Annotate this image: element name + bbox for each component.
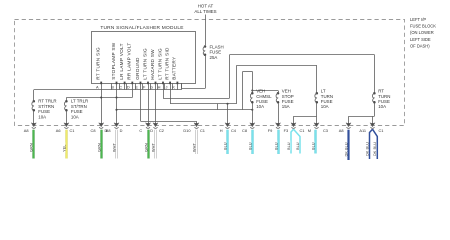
svg-text:YEL: YEL bbox=[61, 144, 66, 152]
svg-text:10A: 10A bbox=[321, 104, 329, 109]
svg-text:C1: C1 bbox=[200, 128, 205, 133]
svg-text:C8: C8 bbox=[242, 128, 247, 133]
svg-text:A11: A11 bbox=[359, 128, 366, 133]
svg-text:C1: C1 bbox=[70, 128, 75, 133]
svg-text:C1: C1 bbox=[300, 128, 305, 133]
svg-text:LEFT SIDE: LEFT SIDE bbox=[410, 37, 431, 42]
svg-text:GRN: GRN bbox=[28, 143, 33, 152]
svg-text:10A: 10A bbox=[256, 104, 264, 109]
svg-text:A8: A8 bbox=[339, 128, 344, 133]
svg-text:GRN: GRN bbox=[96, 143, 101, 152]
svg-text:TURN SIGNAL/FLASHER MODULE: TURN SIGNAL/FLASHER MODULE bbox=[100, 25, 183, 31]
svg-text:C8: C8 bbox=[91, 128, 96, 133]
svg-text:HOT AT: HOT AT bbox=[198, 4, 214, 9]
svg-text:A8: A8 bbox=[24, 128, 29, 133]
svg-text:10A: 10A bbox=[38, 115, 46, 120]
svg-text:(ON LOWER: (ON LOWER bbox=[410, 30, 434, 35]
svg-text:RT TURN SIG: RT TURN SIG bbox=[96, 47, 101, 80]
svg-text:FUSE BLOCK: FUSE BLOCK bbox=[410, 24, 436, 29]
svg-text:15A: 15A bbox=[282, 104, 290, 109]
svg-text:GRN: GRN bbox=[143, 143, 148, 152]
svg-text:DK BLU: DK BLU bbox=[343, 142, 348, 156]
svg-text:HAZARD SW: HAZARD SW bbox=[150, 49, 155, 80]
svg-text:A6: A6 bbox=[56, 128, 61, 133]
svg-text:D: D bbox=[120, 128, 123, 133]
svg-text:J: J bbox=[166, 85, 168, 90]
svg-text:RT TURN SID: RT TURN SID bbox=[164, 47, 169, 80]
svg-text:GROUND: GROUND bbox=[135, 57, 140, 80]
svg-text:BATTERY: BATTERY bbox=[172, 56, 177, 80]
svg-text:D: D bbox=[127, 85, 130, 90]
svg-text:BLU: BLU bbox=[295, 142, 300, 150]
svg-text:C3: C3 bbox=[323, 128, 328, 133]
svg-text:WHT: WHT bbox=[111, 143, 116, 152]
svg-text:A: A bbox=[96, 85, 99, 90]
svg-text:LT TURN SIG: LT TURN SIG bbox=[142, 48, 147, 80]
svg-text:DK BLU: DK BLU bbox=[364, 142, 369, 156]
svg-text:FLASH: FLASH bbox=[210, 44, 224, 49]
svg-text:BLU: BLU bbox=[310, 142, 315, 150]
svg-text:BLU: BLU bbox=[247, 142, 252, 150]
svg-text:FUSE: FUSE bbox=[38, 109, 50, 114]
svg-text:BLU: BLU bbox=[286, 142, 291, 150]
svg-text:WHT: WHT bbox=[191, 143, 196, 152]
svg-text:F3: F3 bbox=[284, 128, 289, 133]
svg-text:F9: F9 bbox=[268, 128, 273, 133]
svg-text:10A: 10A bbox=[71, 115, 79, 120]
svg-text:C4: C4 bbox=[231, 128, 237, 133]
svg-text:DK BLU: DK BLU bbox=[372, 142, 377, 156]
svg-text:LT TURN SIG: LT TURN SIG bbox=[157, 48, 162, 80]
svg-text:FUSE: FUSE bbox=[210, 50, 222, 55]
svg-text:D: D bbox=[150, 128, 153, 133]
svg-text:C: C bbox=[139, 128, 142, 133]
svg-text:H: H bbox=[158, 85, 161, 90]
svg-text:ST/TRN: ST/TRN bbox=[38, 104, 54, 109]
svg-text:STOPLAMP SW: STOPLAMP SW bbox=[111, 42, 116, 80]
svg-text:LEFT I/P: LEFT I/P bbox=[410, 17, 426, 22]
svg-text:D10: D10 bbox=[183, 128, 191, 133]
svg-text:RR LAMP VOLT: RR LAMP VOLT bbox=[127, 42, 132, 79]
svg-text:ALL TIMES: ALL TIMES bbox=[194, 9, 216, 14]
svg-text:FUSE: FUSE bbox=[71, 109, 83, 114]
svg-text:B8: B8 bbox=[106, 128, 111, 133]
svg-text:M: M bbox=[308, 128, 311, 133]
svg-text:ST/TRN: ST/TRN bbox=[71, 104, 87, 109]
svg-text:BLU: BLU bbox=[273, 142, 278, 150]
svg-text:BLU: BLU bbox=[222, 142, 227, 150]
svg-text:H: H bbox=[220, 128, 223, 133]
svg-text:C1: C1 bbox=[379, 128, 384, 133]
svg-text:25A: 25A bbox=[210, 55, 218, 60]
svg-text:WHT: WHT bbox=[150, 143, 155, 152]
svg-text:LT TRLR: LT TRLR bbox=[71, 99, 88, 104]
svg-text:C2: C2 bbox=[159, 128, 164, 133]
svg-text:RT TRLR: RT TRLR bbox=[38, 99, 56, 104]
svg-text:LR LAMP VOLT: LR LAMP VOLT bbox=[119, 43, 124, 80]
svg-text:OF DASH): OF DASH) bbox=[410, 43, 430, 48]
svg-text:10A: 10A bbox=[378, 104, 386, 109]
